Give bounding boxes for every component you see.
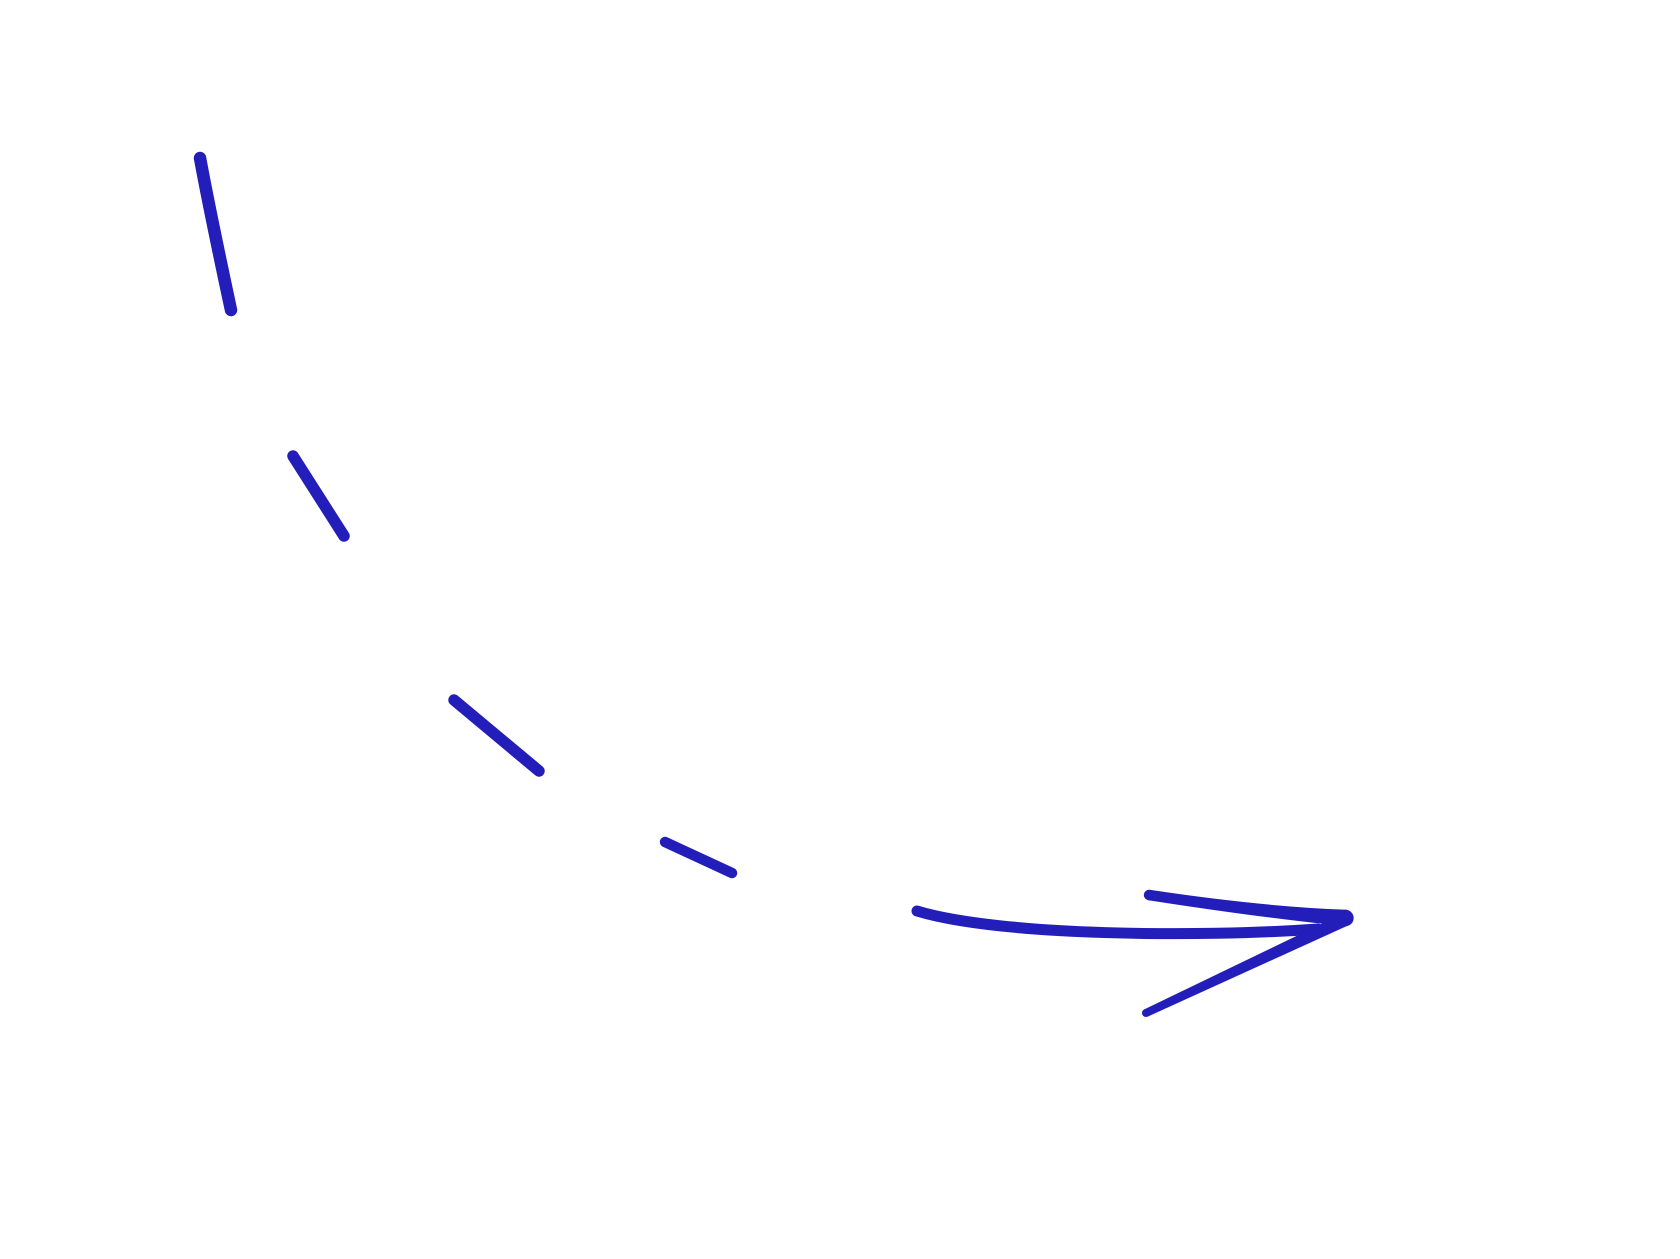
dash segment 4 bbox=[665, 842, 732, 873]
arrowhead upper barb (tapered) bbox=[1142, 890, 1354, 1017]
arrowhead lower barb (tapered) bbox=[1144, 914, 1348, 1017]
arrow shaft (long curved stroke) bbox=[917, 911, 1318, 934]
arrow tip blob bbox=[1337, 910, 1353, 926]
dash segment 2 bbox=[293, 456, 344, 536]
dash segment 3 bbox=[454, 700, 539, 771]
dash segment 1 (top left, steep) bbox=[200, 158, 231, 310]
